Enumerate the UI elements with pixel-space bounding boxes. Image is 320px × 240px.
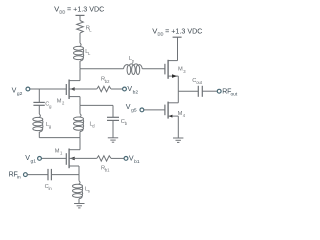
wire node B to Cb: [80, 104, 113, 106]
svg-text:4: 4: [183, 113, 186, 118]
resistor Rb2: [97, 77, 111, 92]
svg-text:p: p: [132, 58, 135, 63]
svg-text:1: 1: [60, 150, 63, 155]
wire node B to Ld: [79, 105, 81, 113]
node Vg2 terminal: [26, 87, 30, 91]
node RFout terminal: [217, 89, 221, 93]
wire node A to Lp: [80, 68, 124, 70]
transistor M2: [57, 80, 80, 106]
svg-text:in: in: [17, 175, 21, 181]
wire node A to M2 drain: [79, 69, 81, 81]
wire Cb to ground: [112, 120, 114, 137]
inductor Lp: [124, 56, 143, 75]
svg-text:= +1.3 VDC: = +1.3 VDC: [67, 7, 104, 14]
wire Lg to node C: [38, 132, 40, 138]
svg-text:L: L: [88, 51, 91, 56]
svg-text:g: g: [49, 124, 52, 129]
wire LL to node A: [79, 61, 81, 69]
svg-text:s: s: [88, 189, 90, 194]
transistor M3: [165, 60, 186, 79]
node RFin terminal: [24, 173, 28, 177]
transistor M4: [165, 102, 186, 119]
wire Rb2 to Vb2: [111, 88, 123, 90]
inductor Ld: [74, 114, 96, 132]
inductor Ls: [73, 181, 90, 199]
svg-text:3: 3: [183, 69, 186, 74]
svg-text:2: 2: [62, 100, 65, 105]
capacitor Cout: [192, 78, 203, 97]
transistor M1: [55, 148, 80, 174]
svg-text:b: b: [125, 121, 128, 126]
svg-text:b2: b2: [133, 89, 139, 95]
net VDD label (left): [54, 7, 104, 16]
wire Cin to M1 source node: [51, 174, 79, 176]
capacitor Cb: [107, 117, 128, 126]
wire Lp to M3 gate: [142, 68, 165, 70]
VDD supply tap (right): [173, 36, 182, 38]
wire M2 gate lead: [30, 88, 67, 90]
svg-text:out: out: [196, 80, 203, 85]
wire Ld to node C: [79, 132, 81, 138]
wire M1 source node to Ls: [78, 175, 80, 181]
wire M4 gate lead: [144, 109, 165, 111]
svg-text:g2: g2: [17, 91, 23, 97]
wire Cg to Lg: [38, 105, 40, 114]
svg-text:b1: b1: [134, 159, 140, 165]
wire Ls to ground: [78, 199, 80, 204]
resistor Rb1: [97, 156, 111, 173]
svg-text:g5: g5: [131, 108, 137, 114]
svg-text:g: g: [49, 104, 52, 109]
ground (under Cb): [108, 137, 118, 139]
wire node D to M4 drain: [177, 91, 179, 103]
VDD supply tap (left): [76, 14, 85, 16]
node Vg5 terminal: [140, 108, 144, 112]
svg-text:L: L: [89, 28, 92, 33]
inductor LL: [74, 43, 92, 61]
svg-text:DD: DD: [158, 31, 164, 37]
svg-text:g1: g1: [31, 159, 37, 165]
svg-text:out: out: [231, 92, 238, 98]
wire M1 gate lead: [41, 157, 66, 159]
node Vb2 terminal: [123, 87, 127, 91]
capacitor Cg: [33, 102, 52, 109]
resistor RL: [77, 21, 93, 34]
wire Rb1 to Vb1: [111, 157, 124, 159]
svg-text:DD: DD: [59, 9, 65, 15]
wire RL to LL: [79, 33, 81, 43]
wire Cout to RFout: [202, 90, 217, 92]
wire VDD tap to RL: [79, 15, 81, 20]
wire node C to M1 drain: [79, 138, 81, 150]
svg-text:= +1.3 VDC: = +1.3 VDC: [165, 29, 202, 36]
wire node D to Cout: [178, 90, 198, 92]
wire VDD tap to M3 drain: [177, 37, 179, 60]
svg-text:d: d: [92, 123, 95, 128]
ground (under Ls): [74, 203, 84, 205]
node Vg1 terminal: [38, 157, 42, 161]
svg-text:V: V: [12, 86, 17, 94]
capacitor Cin: [45, 169, 53, 191]
svg-text:b2: b2: [105, 79, 110, 84]
svg-text:in: in: [49, 186, 53, 191]
wire M4 source to ground: [177, 116, 179, 138]
wire M2 body to Rb2: [69, 88, 97, 90]
ground (under M4): [173, 137, 183, 139]
wire M3 source to node D: [177, 76, 179, 91]
wire Vg2 line tee down to Cg: [38, 89, 40, 102]
svg-text:b1: b1: [105, 168, 110, 173]
wire RFin to Cin: [27, 174, 48, 176]
inductor Lg: [33, 114, 52, 132]
svg-text:V: V: [126, 103, 131, 111]
svg-text:V: V: [25, 154, 30, 162]
node Vb1 terminal: [124, 157, 128, 161]
wire M1 body to Rb1: [69, 157, 97, 159]
net VDD label (right): [152, 29, 202, 38]
